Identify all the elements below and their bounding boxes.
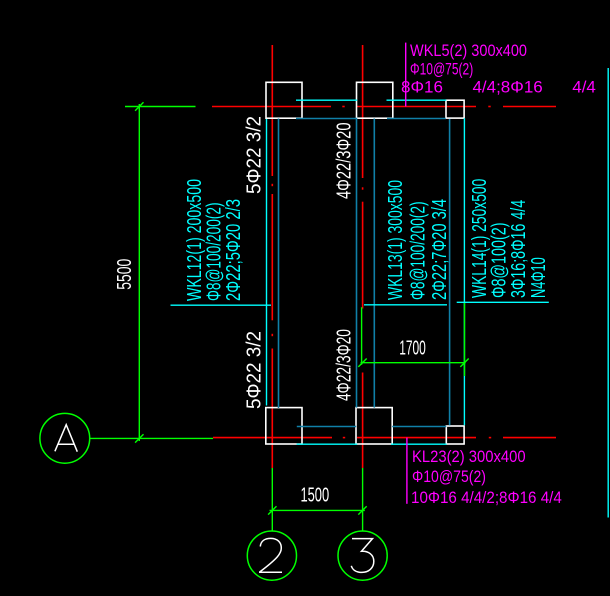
label WKL13 leader xyxy=(364,304,447,306)
svg-text:5Φ22 3/2: 5Φ22 3/2 xyxy=(244,331,266,409)
dimension 1700 left extension xyxy=(361,307,363,365)
beam WKL5 bottom edge (teal) xyxy=(296,118,446,120)
svg-text:Φ10@75(2): Φ10@75(2) xyxy=(410,59,473,78)
beam WKL13 right edge (teal) xyxy=(373,119,375,408)
dimension 1700 left tick xyxy=(358,359,366,367)
svg-text:1500: 1500 xyxy=(300,484,329,506)
axis line 2 (vertical red center line) xyxy=(271,45,273,468)
dimension 1700 right extension xyxy=(464,302,466,376)
svg-text:4Φ22/3Φ20: 4Φ22/3Φ20 xyxy=(334,329,356,401)
note KL23 leader xyxy=(406,438,408,504)
svg-text:N4Φ10: N4Φ10 xyxy=(528,257,550,298)
grid bubble 3 circle xyxy=(338,531,387,580)
svg-text:WKL5(2) 300x400: WKL5(2) 300x400 xyxy=(410,41,527,60)
grid bubble 2 circle xyxy=(247,531,296,580)
beam WKL12 left edge (cyan) xyxy=(266,119,268,406)
beam WKL13 left edge (teal) xyxy=(356,119,358,408)
column C2 top xyxy=(357,82,393,118)
beam KL23 bottom edge (cyan) xyxy=(297,443,447,445)
svg-text:5500: 5500 xyxy=(114,259,136,290)
column C2 bottom xyxy=(356,408,392,444)
grid bubble A label xyxy=(55,425,77,452)
axis 2 green segment xyxy=(271,468,273,531)
beam WKL12 right edge (teal) xyxy=(278,119,280,409)
note WKL5 leader xyxy=(405,43,407,107)
beam WKL5 top edge (cyan) xyxy=(296,99,446,101)
svg-text:1700: 1700 xyxy=(399,337,426,359)
viewport edge line right (cyan) xyxy=(607,68,609,518)
dimension 1500 left tick xyxy=(268,506,276,514)
svg-text:2Φ22;7Φ20 3/4: 2Φ22;7Φ20 3/4 xyxy=(429,199,451,300)
dimension 5500 top tick xyxy=(135,102,143,110)
beam WKL14 right edge (cyan) xyxy=(463,118,465,425)
axis A green segment xyxy=(90,437,213,439)
label WKL12 leader xyxy=(171,304,272,306)
dimension 5500 bottom tick xyxy=(135,434,143,442)
svg-text:KL23(2) 300x400: KL23(2) 300x400 xyxy=(412,447,526,466)
svg-text:10Φ16 4/4/2;8Φ16 4/4: 10Φ16 4/4/2;8Φ16 4/4 xyxy=(411,488,562,507)
beam KL23 top edge (teal) xyxy=(297,426,447,428)
dimension 1700 line xyxy=(361,362,466,364)
axis line 3 (vertical red center line) xyxy=(362,45,364,468)
svg-text:8Φ16 4/4;8Φ16 4/4: 8Φ16 4/4;8Φ16 4/4 xyxy=(401,78,596,97)
column C1 bottom xyxy=(266,408,302,444)
column C3 top (small) xyxy=(446,100,464,118)
svg-text:2Φ22;5Φ20 2/3: 2Φ22;5Φ20 2/3 xyxy=(223,199,245,301)
svg-text:Φ10@75(2): Φ10@75(2) xyxy=(412,467,486,486)
dimension 5500 line xyxy=(138,104,140,441)
beam WKL14 left edge (teal) xyxy=(449,119,451,425)
axis line A (horizontal red center line) xyxy=(213,437,556,439)
axis 3 green segment xyxy=(362,468,364,531)
dimension 1700 right tick xyxy=(460,359,468,367)
svg-text:4Φ22/3Φ20: 4Φ22/3Φ20 xyxy=(334,123,356,200)
grid bubble 2 label xyxy=(260,538,282,572)
dimension 1500 right tick xyxy=(358,506,366,514)
svg-text:5Φ22 3/2: 5Φ22 3/2 xyxy=(244,116,266,194)
grid bubble 3 label xyxy=(351,539,374,573)
column C3 bottom (small) xyxy=(446,426,464,444)
svg-text:Φ8@100/200(2): Φ8@100/200(2) xyxy=(408,202,430,301)
svg-text:WKL13(1) 300x500: WKL13(1) 300x500 xyxy=(385,180,407,300)
column C1 top xyxy=(266,82,302,118)
grid bubble A circle xyxy=(40,413,90,463)
dimension 1500 line xyxy=(270,509,365,511)
dimension 5500 top extension xyxy=(125,106,196,108)
label WKL14 leader xyxy=(457,301,549,303)
svg-text:3Φ16;8Φ16 4/4: 3Φ16;8Φ16 4/4 xyxy=(508,200,530,298)
axis line top horizontal (red center line) xyxy=(212,106,556,108)
